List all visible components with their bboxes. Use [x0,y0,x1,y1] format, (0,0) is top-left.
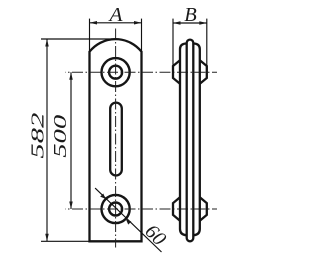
top hole inner circle [109,66,122,79]
bottom hole inner circle [109,203,122,216]
dimension 582 line [46,39,48,241]
dimension B extension line right [206,19,208,66]
dimension 582 top arrow [45,39,49,47]
dimension A extension line right [141,19,143,52]
dimension A line [90,22,142,24]
dimension 582 top extension line [41,38,116,40]
dimension 500 top arrow [69,72,73,80]
diameter 60 lower arrow [126,219,131,224]
dimension 582 bottom extension line [41,240,90,242]
svg-text:500: 500 [50,115,70,158]
bottom hole outer circle [102,195,130,223]
diameter 60 leader line [95,188,161,252]
dimension B left arrow [173,21,181,25]
dimension B extension line left [172,19,174,66]
dimension 582 bottom arrow [45,234,49,242]
side view column left outline [180,43,187,235]
central slot [110,103,122,176]
vertical centerline of front view [115,29,117,248]
bottom flange left chamfer [173,197,180,221]
dimension A right arrow [134,21,142,25]
dimension 500 bottom arrow [69,202,73,210]
top flange left chamfer [173,60,180,84]
svg-text:582: 582 [27,113,47,159]
side view column right outline [193,43,200,235]
horizontal centerline through top holes (both views) [65,71,217,73]
dimension B right arrow [199,21,207,25]
top flange right chamfer [200,60,207,84]
dimension B line [173,22,207,24]
top hole outer circle [102,58,130,86]
front view plate outline [90,39,142,241]
side view central tube [187,40,194,242]
dimension 500 line [70,72,72,209]
dimension A extension line left [89,19,91,52]
svg-text:A: A [107,4,123,26]
svg-text:B: B [184,4,197,26]
horizontal centerline through bottom holes (both views) [65,208,217,210]
dimension A left arrow [90,21,98,25]
diameter 60 upper arrow [100,193,105,198]
bottom flange right chamfer [200,197,207,221]
